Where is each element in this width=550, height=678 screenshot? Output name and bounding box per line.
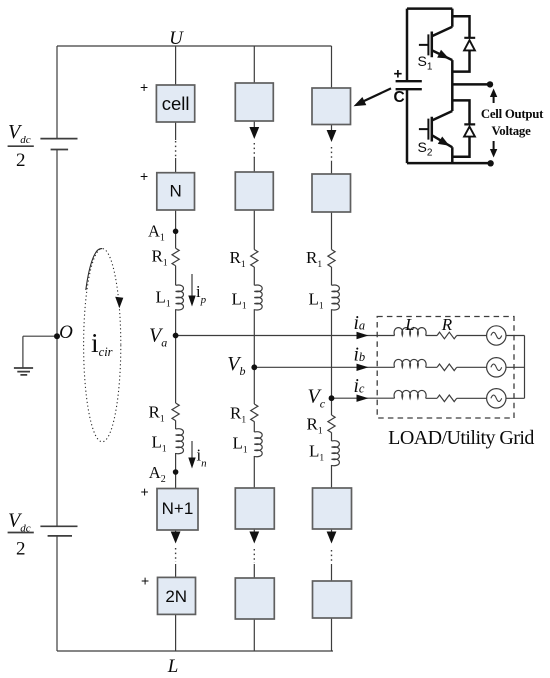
svg-text:+: + [140,79,148,95]
svg-text:2: 2 [16,539,26,560]
svg-text:R: R [441,315,453,334]
svg-text:N: N [169,181,181,200]
svg-text:cell: cell [162,93,190,114]
svg-text:2: 2 [16,150,26,171]
svg-text:Voltage: Voltage [491,124,531,138]
svg-text:LOAD/Utility Grid: LOAD/Utility Grid [388,427,534,449]
svg-text:C: C [394,89,405,106]
svg-text:+: + [141,573,149,589]
svg-text:Cell Output: Cell Output [481,107,544,121]
svg-text:L: L [404,315,414,334]
svg-text:O: O [59,322,73,343]
svg-text:+: + [140,168,148,184]
svg-text:+: + [141,484,149,500]
svg-text:U: U [169,28,184,49]
svg-text:+: + [394,66,403,83]
svg-text:L: L [167,656,179,677]
svg-text:2N: 2N [165,587,187,606]
svg-text:N+1: N+1 [162,499,194,518]
